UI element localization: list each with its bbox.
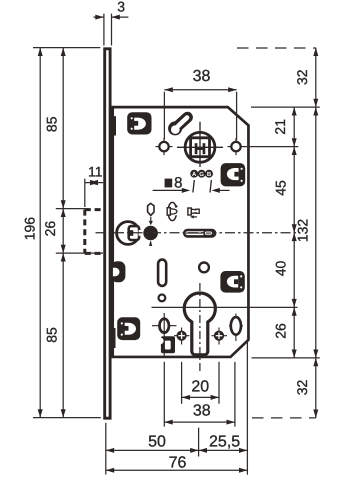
AGB logo (190, 170, 213, 178)
oval left vertical tick (163, 313, 165, 356)
dimension 20 line (182, 396, 219, 398)
dimension 76 line (106, 469, 248, 471)
svg-text:26: 26 (273, 323, 289, 339)
dim 196 arrows (38, 48, 43, 56)
dimension column outer right (32/132/32) (315, 48, 317, 418)
fixing tab bar lower-left (112, 328, 116, 348)
centerline horizontal main (96, 232, 298, 234)
svg-text:25,5: 25,5 (209, 433, 240, 450)
mounting tab right-lower (D mirrored) (220, 271, 244, 293)
bottom extension lines (181, 362, 183, 404)
adjustment slot inner block (204, 231, 213, 236)
svg-text:40: 40 (273, 261, 289, 277)
small hole right of slot (199, 263, 209, 273)
dimension 8 arrows (153, 180, 230, 193)
cylinder screw hole left (174, 335, 190, 337)
extension line latch box bottom (56, 252, 103, 254)
oval hole left (152, 325, 177, 327)
vertical slot (158, 260, 166, 286)
svg-text:20: 20 (191, 378, 209, 395)
svg-text:132: 132 (295, 219, 311, 243)
svg-text:A: A (192, 171, 197, 178)
dimension 38 bottom line (164, 421, 235, 423)
arrowheads (38, 15, 319, 473)
dim 32 bottom arrows (313, 358, 318, 366)
svg-text:B: B (207, 171, 212, 178)
dimension 50 / 25,5 line (106, 449, 248, 451)
dim 38 top arrows (164, 87, 172, 92)
faceplate (105, 49, 110, 418)
mounting tab left (P semicircle) (111, 261, 125, 282)
mounting tab right-upper (D mirrored) (221, 163, 246, 186)
dimension column inner right (21/45/40/26) (293, 107, 295, 358)
extension body top right (251, 106, 320, 108)
follower pin (black dot) (143, 226, 158, 241)
latch bolt (117, 222, 142, 245)
svg-text:11: 11 (88, 163, 103, 179)
dimension 11 (84, 179, 86, 207)
lock body outline (113, 107, 249, 357)
small hole below vertical slot (159, 295, 166, 302)
dim 32 top arrows (313, 48, 318, 56)
adjustment slot (stadium) (184, 230, 215, 236)
svg-text:21: 21 (272, 119, 288, 135)
centerline cylinder vertical (199, 283, 201, 373)
dim 50 arrows (106, 448, 114, 453)
screw hole right (228, 146, 245, 148)
adjustment slot inner line (186, 232, 203, 234)
follower pin arrow below (150, 242, 152, 246)
svg-text:G: G (199, 171, 204, 178)
svg-text:26: 26 (42, 221, 58, 237)
dimension 3 extensions (103, 14, 105, 46)
bean shaped slot (168, 117, 187, 135)
dim 76 arrows (106, 468, 114, 473)
strike recess dashed box (85, 210, 104, 254)
icon follower rotate (167, 202, 179, 220)
svg-text:76: 76 (169, 454, 187, 471)
dim 25,5 arrows (199, 448, 207, 453)
svg-text:85: 85 (44, 327, 60, 343)
screw hole left (156, 146, 173, 148)
centerline cylinder horizontal (152, 306, 298, 308)
mounting tab bottom-left (D) (117, 317, 140, 340)
dim 21 arrows (292, 107, 297, 115)
extension line faceplate bottom (33, 417, 101, 419)
extension line latch box top (56, 208, 88, 210)
extension body bottom right (252, 357, 320, 359)
svg-text:8: 8 (174, 174, 182, 191)
svg-text:50: 50 (148, 433, 166, 450)
dashed faceplate-bottom extension right (252, 417, 316, 419)
svg-text:32: 32 (294, 69, 310, 85)
mounting tab top-left (D) (127, 112, 151, 134)
dim 26 left arrows (61, 209, 66, 217)
8mm square marker (165, 179, 173, 188)
svg-text:3: 3 (117, 0, 125, 15)
dimension 196 line (39, 48, 41, 418)
svg-text:45: 45 (273, 180, 289, 196)
dim 38 bottom arrows (164, 420, 172, 425)
dim 85 top arrows (61, 48, 66, 56)
dim 40 arrows (292, 233, 297, 241)
fixing tab bar upper-left (112, 116, 116, 135)
oval hole right (235, 314, 237, 342)
spindle hub (177, 122, 223, 167)
icon shield/crystal (148, 203, 154, 215)
svg-text:38: 38 (193, 68, 211, 85)
retainer clip (boot) (157, 336, 175, 353)
icon shield arrow (150, 217, 152, 222)
svg-text:32: 32 (294, 380, 310, 396)
dim 26 right arrows (292, 307, 297, 315)
dashed faceplate-top extension right (237, 47, 316, 49)
dim 85 bottom arrows (61, 253, 66, 261)
extension line faceplate top (33, 47, 100, 49)
cylinder screw hole right (212, 335, 228, 337)
dimension 38 top (163, 92, 165, 140)
euro cylinder hole (184, 293, 215, 355)
dim 45 arrows (292, 147, 297, 155)
icon follower insert (188, 208, 199, 219)
svg-text:38: 38 (193, 402, 211, 419)
svg-text:196: 196 (22, 217, 38, 241)
extension screwhole level right (244, 146, 299, 148)
dimension 85/26/85 line (62, 48, 64, 418)
dim 20 arrows (182, 395, 190, 400)
dim 3 arrows (95, 15, 103, 20)
dim 132 arrows (313, 107, 318, 115)
svg-text:85: 85 (44, 116, 60, 132)
dim 11 bowtie arrows (89, 180, 98, 185)
